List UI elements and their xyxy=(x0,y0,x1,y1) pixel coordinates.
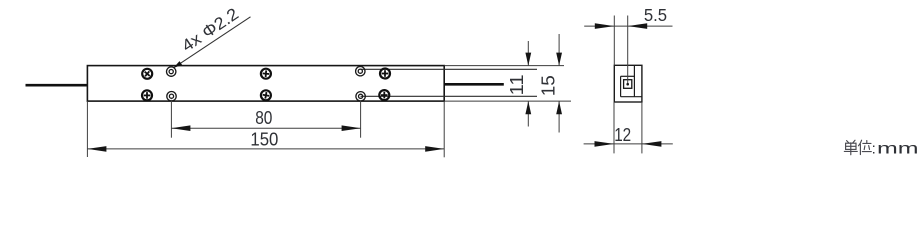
leader line for hole callout xyxy=(174,17,250,68)
drive rod (front view) xyxy=(444,83,504,86)
slider bottom edge / 11-dim extension xyxy=(361,95,538,97)
side view outline xyxy=(614,65,642,102)
side view inner vertical edge xyxy=(633,65,635,96)
dim 150 left arrow xyxy=(87,146,106,152)
leader arrowhead xyxy=(173,61,182,68)
dim 80 extension line left (from hole H3) xyxy=(170,100,172,138)
mounting hole H2 top-right xyxy=(356,67,365,76)
screw S3 top-right xyxy=(380,69,390,79)
dim 5.5 dimension line xyxy=(584,25,672,27)
dim 11 bottom arrow xyxy=(525,101,531,114)
dim 150 extension line right (body right edge) xyxy=(443,101,445,157)
svg-text:80: 80 xyxy=(255,108,272,128)
side view square shaft section xyxy=(624,80,632,89)
dim 150 extension line left (body left edge) xyxy=(86,101,88,157)
svg-text:11: 11 xyxy=(507,74,527,95)
dim 15 bottom arrow xyxy=(556,101,562,114)
svg-text:12: 12 xyxy=(614,125,631,145)
dim 15 dimension line (vertical) xyxy=(558,34,560,66)
screw S1 top-left xyxy=(142,69,152,79)
dim 12 dimension line xyxy=(584,143,673,145)
svg-text:15: 15 xyxy=(539,75,559,96)
svg-text:150: 150 xyxy=(250,130,278,150)
cable lead-out (left) xyxy=(26,84,88,87)
dim 15 top arrow xyxy=(556,53,562,66)
side view inner horizontal edge xyxy=(621,96,642,98)
screw S2 top-middle xyxy=(261,69,271,79)
dim 150 dimension line xyxy=(87,148,444,150)
dim 5.5 extension line left (side view left edge) xyxy=(613,16,615,66)
unit note: hanzi WEI (position) drawn strokes xyxy=(859,140,872,154)
dim 80 right arrow xyxy=(342,125,361,131)
side view slider section top edge xyxy=(621,75,635,77)
screw S6 bottom-right xyxy=(379,90,389,100)
mounting hole H1 top-left xyxy=(167,67,176,76)
body bottom edge extension to 15-dim xyxy=(444,100,571,102)
actuator body outline (front view) xyxy=(87,66,444,102)
svg-text::: : xyxy=(872,140,876,157)
dim 12 extension line right xyxy=(641,102,643,153)
screw S4 bottom-left xyxy=(142,90,152,100)
dim 5.5 right arrow (outside) xyxy=(628,23,648,29)
side view shaft center dot xyxy=(626,83,629,86)
dim 11 dimension line (vertical) xyxy=(527,41,529,66)
dim 12 left arrow (outside) xyxy=(595,141,615,147)
dim 11 top arrow xyxy=(525,53,531,66)
body top edge extension to 15-dim xyxy=(444,65,564,67)
mounting hole H4 bottom-right xyxy=(356,92,365,101)
side view slider section left edge xyxy=(620,76,622,96)
dim 5.5 extension line right (shaft center line) xyxy=(627,16,629,84)
dim 80 left arrow xyxy=(171,125,190,131)
dim 80 dimension line xyxy=(171,127,360,129)
unit note: hanzi DAN (unit) drawn strokes xyxy=(844,140,857,155)
dim 12 right arrow (outside) xyxy=(642,141,662,147)
dim 150 right arrow xyxy=(425,146,444,152)
slider top edge / 11-dim extension xyxy=(361,68,538,70)
screw S5 bottom-middle xyxy=(261,90,271,100)
dim 12 extension line left xyxy=(613,102,615,153)
dim 5.5 left arrow (outside) xyxy=(595,23,615,29)
svg-text:4x Φ2.2: 4x Φ2.2 xyxy=(178,4,242,55)
svg-text:mm: mm xyxy=(877,140,919,158)
dim 80 extension line right (from hole H4) xyxy=(360,100,362,137)
mounting hole H3 bottom-left xyxy=(167,92,176,101)
svg-text:5.5: 5.5 xyxy=(644,5,667,25)
